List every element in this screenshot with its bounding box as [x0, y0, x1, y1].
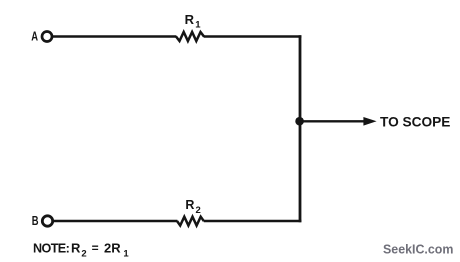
- svg-text:2: 2: [196, 205, 201, 216]
- wire vertical bus: [299, 35, 302, 222]
- wire A to R1: [53, 35, 177, 38]
- svg-text:B: B: [32, 214, 39, 228]
- svg-text:R: R: [71, 240, 81, 255]
- wire R1 to corner: [204, 35, 301, 38]
- wire B to R2: [53, 220, 177, 223]
- svg-text:R: R: [185, 198, 194, 212]
- svg-text:SeekIC.com: SeekIC.com: [383, 242, 453, 257]
- wire output arrow to scope: [300, 117, 377, 126]
- node junction: [295, 117, 304, 126]
- svg-text:2R: 2R: [104, 240, 121, 255]
- note text: [33, 240, 129, 259]
- svg-text:TO SCOPE: TO SCOPE: [380, 114, 450, 129]
- resistor R2: [177, 217, 204, 226]
- svg-text:2: 2: [81, 249, 86, 260]
- terminal A: [42, 32, 52, 42]
- wire R2 to corner: [204, 220, 302, 223]
- svg-text:NOTE:: NOTE:: [33, 241, 69, 255]
- svg-text:=: =: [92, 241, 99, 255]
- svg-text:1: 1: [123, 249, 129, 260]
- resistor R1: [176, 32, 204, 41]
- svg-text:R: R: [185, 12, 195, 27]
- svg-text:1: 1: [195, 20, 201, 31]
- terminal B: [42, 216, 52, 226]
- svg-text:A: A: [31, 30, 38, 44]
